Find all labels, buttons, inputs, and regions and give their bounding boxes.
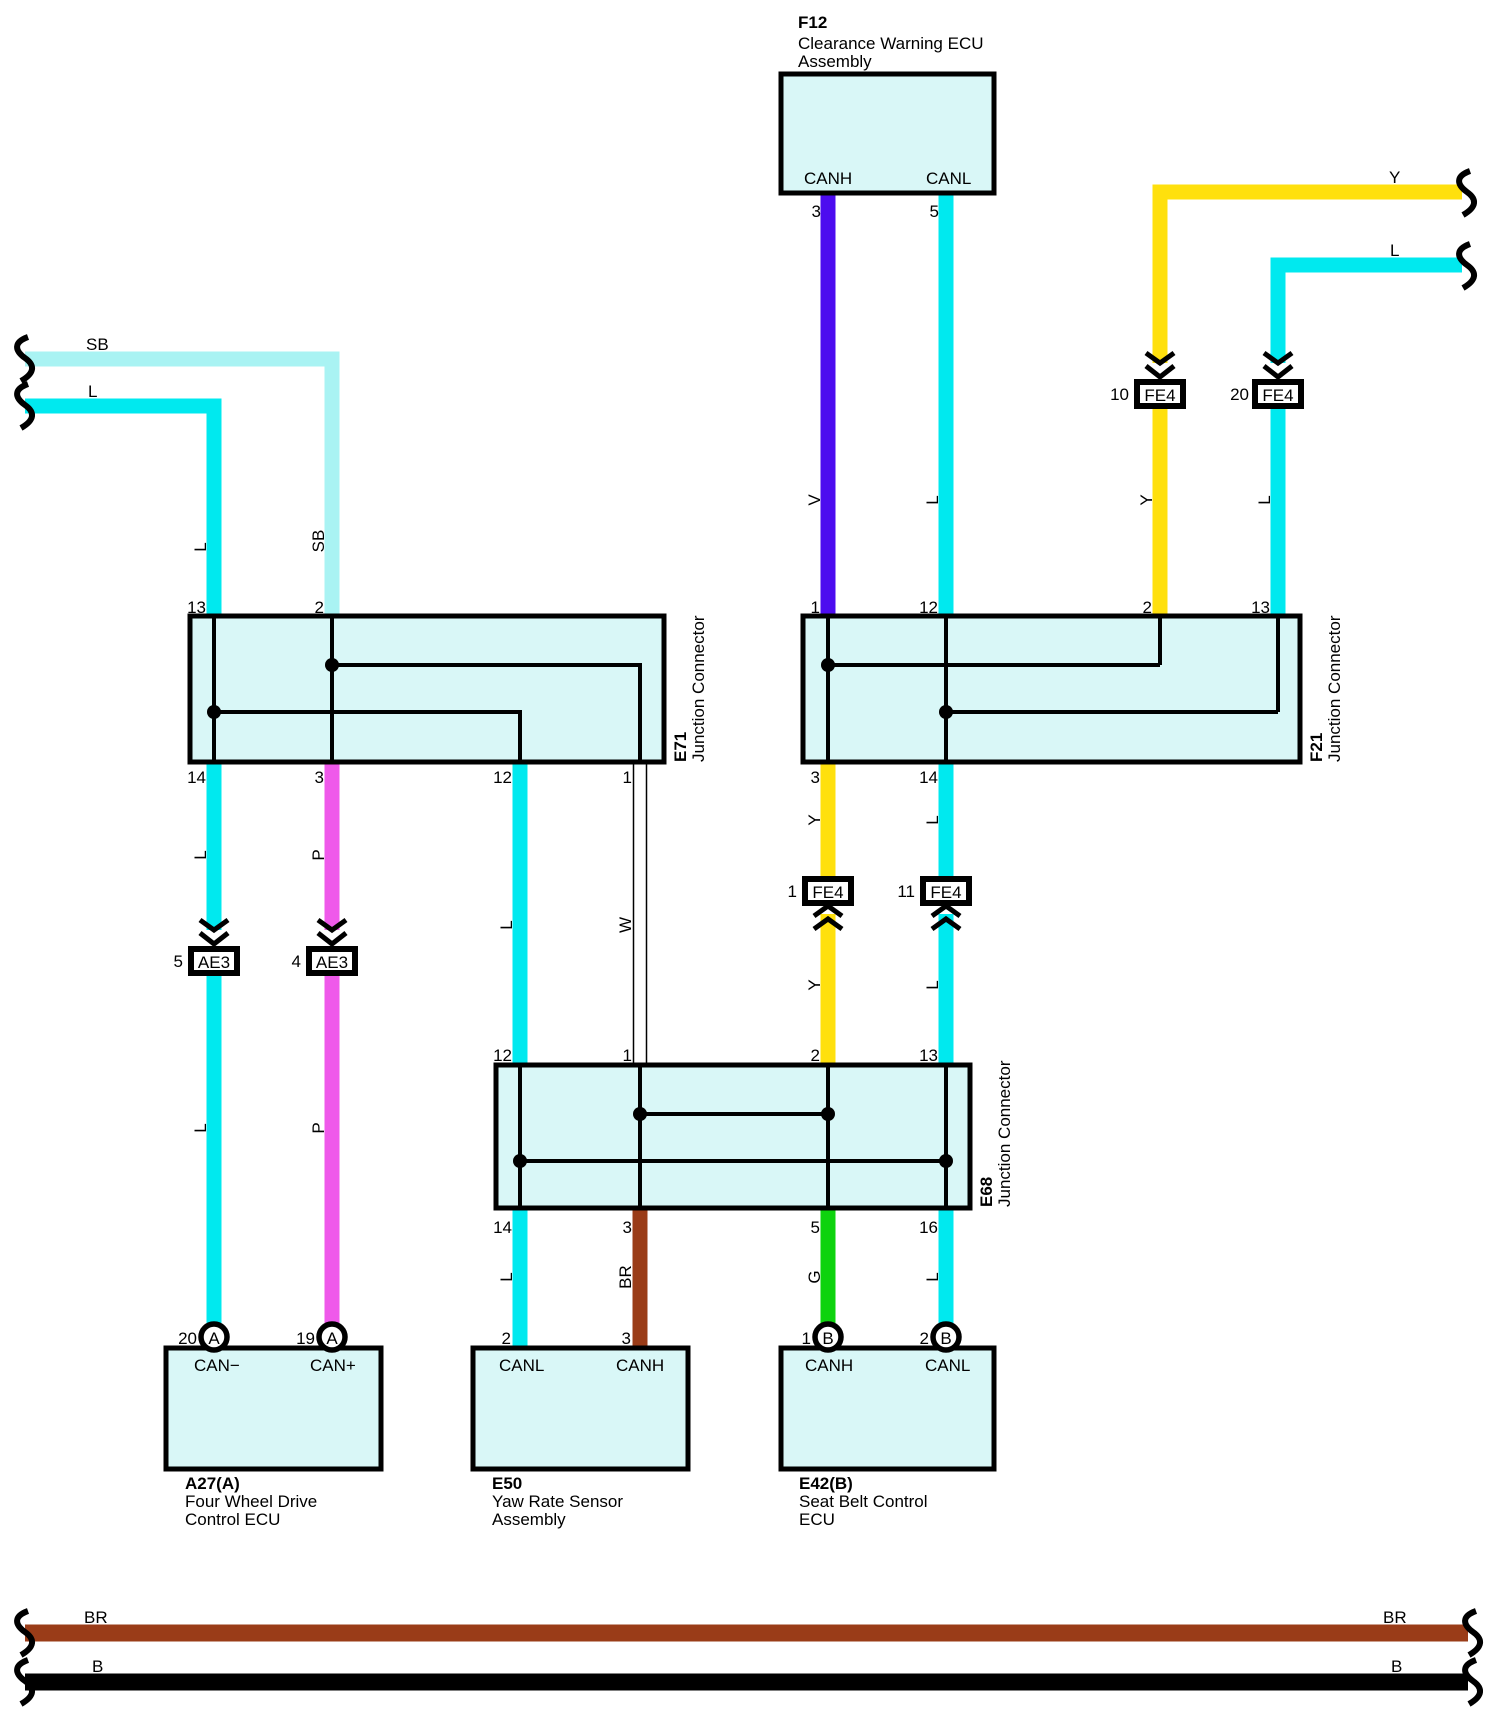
svg-text:BR: BR — [616, 1265, 635, 1289]
rotated wire label L at x214 lower — [191, 1123, 210, 1132]
svg-text:3: 3 — [812, 202, 821, 221]
svg-text:Control ECU: Control ECU — [185, 1510, 280, 1529]
svg-text:P: P — [309, 1122, 328, 1133]
svg-text:SB: SB — [309, 530, 328, 553]
svg-text:L: L — [191, 542, 210, 551]
svg-text:3: 3 — [623, 1218, 632, 1237]
svg-text:B: B — [940, 1329, 951, 1348]
wire P from AE3 to A27 pin 19 — [325, 976, 340, 1326]
wire BR from E68 pin 3 to E50 pin 3 — [633, 1206, 648, 1350]
svg-text:G: G — [805, 1270, 824, 1283]
svg-text:Y: Y — [805, 814, 824, 825]
wire L top right to FE4 20 — [1278, 265, 1462, 363]
svg-text:Y: Y — [805, 979, 824, 990]
svg-text:Seat Belt Control: Seat Belt Control — [799, 1492, 928, 1511]
svg-text:SB: SB — [86, 335, 109, 354]
connector circle B pin 2 — [920, 1324, 959, 1350]
svg-text:19: 19 — [296, 1329, 315, 1348]
svg-text:E68: E68 — [977, 1177, 996, 1207]
svg-text:FE4: FE4 — [1144, 386, 1175, 405]
svg-text:Yaw Rate Sensor: Yaw Rate Sensor — [492, 1492, 623, 1511]
rotated wire label L at x520 — [497, 920, 516, 929]
svg-text:B: B — [1391, 1657, 1402, 1676]
svg-text:L: L — [1255, 495, 1274, 504]
svg-text:Junction Connector: Junction Connector — [995, 1060, 1014, 1207]
svg-text:FE4: FE4 — [1262, 386, 1293, 405]
wire B bottom bus — [25, 1674, 1468, 1691]
wire Y from FE4 1 to E68 pin 2 — [821, 914, 836, 1067]
svg-text:3: 3 — [315, 768, 324, 787]
svg-text:12: 12 — [493, 1046, 512, 1065]
svg-text:L: L — [923, 1272, 942, 1281]
break squiggle L right — [1459, 244, 1474, 288]
connector AE3 pin 4 — [292, 920, 355, 973]
svg-text:5: 5 — [811, 1218, 820, 1237]
rotated wire label BR at x640 — [616, 1265, 635, 1289]
wire label Y right — [1389, 168, 1400, 187]
svg-text:13: 13 — [1251, 598, 1270, 617]
svg-text:L: L — [497, 1272, 516, 1281]
junction connector F21 — [803, 598, 1344, 787]
svg-text:CANL: CANL — [926, 169, 971, 188]
wire label BR bottom right — [1383, 1608, 1407, 1627]
wire label B bottom right — [1391, 1657, 1402, 1676]
wire L from E68 pin 14 to E50 pin 2 — [513, 1206, 528, 1350]
svg-text:CANH: CANH — [616, 1356, 664, 1375]
wire label SB horizontal — [86, 335, 109, 354]
connector AE3 pin 5 — [174, 920, 237, 973]
svg-text:12: 12 — [493, 768, 512, 787]
svg-text:ECU: ECU — [799, 1510, 835, 1529]
connector FE4 pin 10 — [1110, 353, 1183, 406]
svg-text:L: L — [191, 850, 210, 859]
svg-text:BR: BR — [84, 1608, 108, 1627]
svg-text:12: 12 — [919, 598, 938, 617]
svg-text:1: 1 — [802, 1329, 811, 1348]
svg-text:20: 20 — [178, 1329, 197, 1348]
svg-text:Y: Y — [1389, 168, 1400, 187]
rotated wire label L at x946 lower2 — [923, 1272, 942, 1281]
junction connector E71 — [187, 598, 708, 787]
wire G from E68 pin 5 to E42 pin 1 — [821, 1206, 836, 1326]
svg-text:FE4: FE4 — [930, 883, 961, 902]
wire L from E71 pin 14 to AE3 — [207, 760, 222, 930]
wire SB horizontal+vertical to E71 pin 2 — [25, 359, 332, 618]
svg-text:10: 10 — [1110, 385, 1129, 404]
svg-text:P: P — [309, 849, 328, 860]
svg-text:1: 1 — [811, 598, 820, 617]
svg-text:FE4: FE4 — [812, 883, 843, 902]
svg-text:Junction Connector: Junction Connector — [1325, 615, 1344, 762]
svg-text:L: L — [497, 920, 516, 929]
rotated wire label P at x332 lower — [309, 1122, 328, 1133]
rotated wire label L at x946 upper — [923, 815, 942, 824]
rotated wire label Y at x828 lower — [805, 979, 824, 990]
svg-text:A27(A): A27(A) — [185, 1474, 240, 1493]
svg-text:2: 2 — [1143, 598, 1152, 617]
svg-text:F12: F12 — [798, 13, 827, 32]
rotated wire label L at x214 upper — [191, 542, 210, 551]
wire L from FE4 11 to E68 pin 13 — [939, 914, 954, 1067]
svg-text:Four Wheel Drive: Four Wheel Drive — [185, 1492, 317, 1511]
wire L from F21 pin 14 to FE4 11 — [939, 760, 954, 876]
svg-text:14: 14 — [493, 1218, 512, 1237]
wire label L horizontal — [88, 382, 97, 401]
connector circle A pin 20 — [178, 1324, 227, 1350]
box E42(B) Seat Belt Control ECU — [781, 1348, 994, 1529]
connector circle A pin 19 — [296, 1324, 345, 1350]
svg-text:20: 20 — [1230, 385, 1249, 404]
box A27(A) Four Wheel Drive Control ECU — [166, 1348, 381, 1529]
svg-text:A: A — [208, 1329, 220, 1348]
svg-text:Clearance Warning ECU: Clearance Warning ECU — [798, 34, 984, 53]
svg-text:Junction Connector: Junction Connector — [689, 615, 708, 762]
svg-text:L: L — [923, 980, 942, 989]
rotated wire label Y at x1160 — [1137, 494, 1156, 505]
wire V from F12 pin 3 to F21 pin 1 — [821, 192, 836, 618]
wire P from E71 pin 3 to AE3 — [325, 760, 340, 930]
rotated wire label L at x1278 — [1255, 495, 1274, 504]
break squiggle B right — [1465, 1660, 1480, 1704]
svg-text:13: 13 — [187, 598, 206, 617]
svg-text:W: W — [616, 917, 635, 933]
box F12 Clearance Warning ECU Assembly — [781, 13, 994, 221]
rotated wire label Y at x828 upper — [805, 814, 824, 825]
svg-text:2: 2 — [315, 598, 324, 617]
wire L from E68 pin 16 to E42 pin 2 — [939, 1206, 954, 1326]
svg-text:BR: BR — [1383, 1608, 1407, 1627]
svg-text:Y: Y — [1137, 494, 1156, 505]
svg-text:E50: E50 — [492, 1474, 522, 1493]
rotated wire label L at x946 lower — [923, 980, 942, 989]
rotated wire label W at x640 — [616, 917, 635, 933]
svg-text:2: 2 — [920, 1329, 929, 1348]
wire L left horizontal+vertical to E71 pin 13 — [25, 406, 214, 618]
wire L from E71 pin 12 to E68 pin 12 — [513, 760, 528, 1067]
connector FE4 pin 20 — [1230, 353, 1301, 406]
svg-text:CANL: CANL — [925, 1356, 970, 1375]
break squiggle B left — [17, 1660, 32, 1704]
wire label L right — [1390, 241, 1399, 260]
svg-text:L: L — [191, 1123, 210, 1132]
svg-text:14: 14 — [919, 768, 938, 787]
svg-text:5: 5 — [174, 952, 183, 971]
connector FE4 pin 1 — [788, 879, 851, 929]
svg-text:CANL: CANL — [499, 1356, 544, 1375]
svg-text:11: 11 — [897, 882, 915, 901]
svg-text:5: 5 — [930, 202, 939, 221]
svg-text:L: L — [1390, 241, 1399, 260]
svg-text:B: B — [92, 1657, 103, 1676]
svg-text:3: 3 — [622, 1329, 631, 1348]
svg-text:CANH: CANH — [804, 169, 852, 188]
connector circle B pin 1 — [802, 1324, 841, 1350]
svg-text:V: V — [805, 494, 824, 506]
svg-text:F21: F21 — [1307, 733, 1326, 762]
wire label B bottom left — [92, 1657, 103, 1676]
svg-text:Assembly: Assembly — [798, 52, 872, 71]
svg-text:AE3: AE3 — [198, 953, 230, 972]
svg-text:13: 13 — [919, 1046, 938, 1065]
break squiggle BR right — [1465, 1611, 1480, 1655]
break squiggle SB left — [17, 337, 32, 381]
svg-text:L: L — [923, 815, 942, 824]
svg-text:CANH: CANH — [805, 1356, 853, 1375]
box E50 Yaw Rate Sensor Assembly — [473, 1329, 688, 1529]
break squiggle L left — [17, 384, 32, 428]
wire L from AE3 to A27 pin 20 — [207, 976, 222, 1326]
connector FE4 pin 11 — [897, 879, 969, 929]
svg-text:4: 4 — [292, 952, 301, 971]
wire label BR bottom left — [84, 1608, 108, 1627]
svg-text:E71: E71 — [671, 732, 690, 762]
wire W from E71 pin 1 to E68 pin 1 — [634, 762, 647, 1065]
svg-text:L: L — [88, 382, 97, 401]
break squiggle BR left — [17, 1611, 32, 1655]
svg-text:3: 3 — [811, 768, 820, 787]
svg-text:14: 14 — [187, 768, 206, 787]
svg-text:Assembly: Assembly — [492, 1510, 566, 1529]
rotated wire label L at x946 — [923, 495, 942, 504]
svg-text:CAN+: CAN+ — [310, 1356, 356, 1375]
wire L from FE4 20 to F21 pin 13 — [1271, 409, 1286, 618]
rotated wire label L at x214 mid — [191, 850, 210, 859]
svg-text:1: 1 — [623, 768, 632, 787]
svg-text:B: B — [822, 1329, 833, 1348]
break squiggle Y right — [1459, 171, 1474, 215]
svg-text:16: 16 — [919, 1218, 938, 1237]
rotated wire label P at x332 mid — [309, 849, 328, 860]
svg-text:L: L — [923, 495, 942, 504]
svg-text:2: 2 — [502, 1329, 511, 1348]
rotated wire label L at x520 lower — [497, 1272, 516, 1281]
svg-text:E42(B): E42(B) — [799, 1474, 853, 1493]
rotated wire label SB at x332 — [309, 530, 328, 553]
svg-text:CAN−: CAN− — [194, 1356, 240, 1375]
svg-text:A: A — [326, 1329, 338, 1348]
wire BR bottom bus — [25, 1625, 1468, 1642]
wire Y top right to FE4 10 — [1160, 192, 1462, 363]
svg-text:AE3: AE3 — [316, 953, 348, 972]
svg-text:1: 1 — [623, 1046, 632, 1065]
rotated wire label V at x828 — [805, 494, 824, 506]
rotated wire label G at x828 — [805, 1270, 824, 1283]
wire L from F12 pin 5 to F21 pin 12 — [939, 192, 954, 618]
junction connector E68 — [493, 1046, 1014, 1237]
wire Y from F21 pin 3 to FE4 1 — [821, 760, 836, 876]
wire Y from FE4 10 to F21 pin 2 — [1153, 409, 1168, 618]
svg-text:1: 1 — [788, 882, 797, 901]
svg-text:2: 2 — [811, 1046, 820, 1065]
